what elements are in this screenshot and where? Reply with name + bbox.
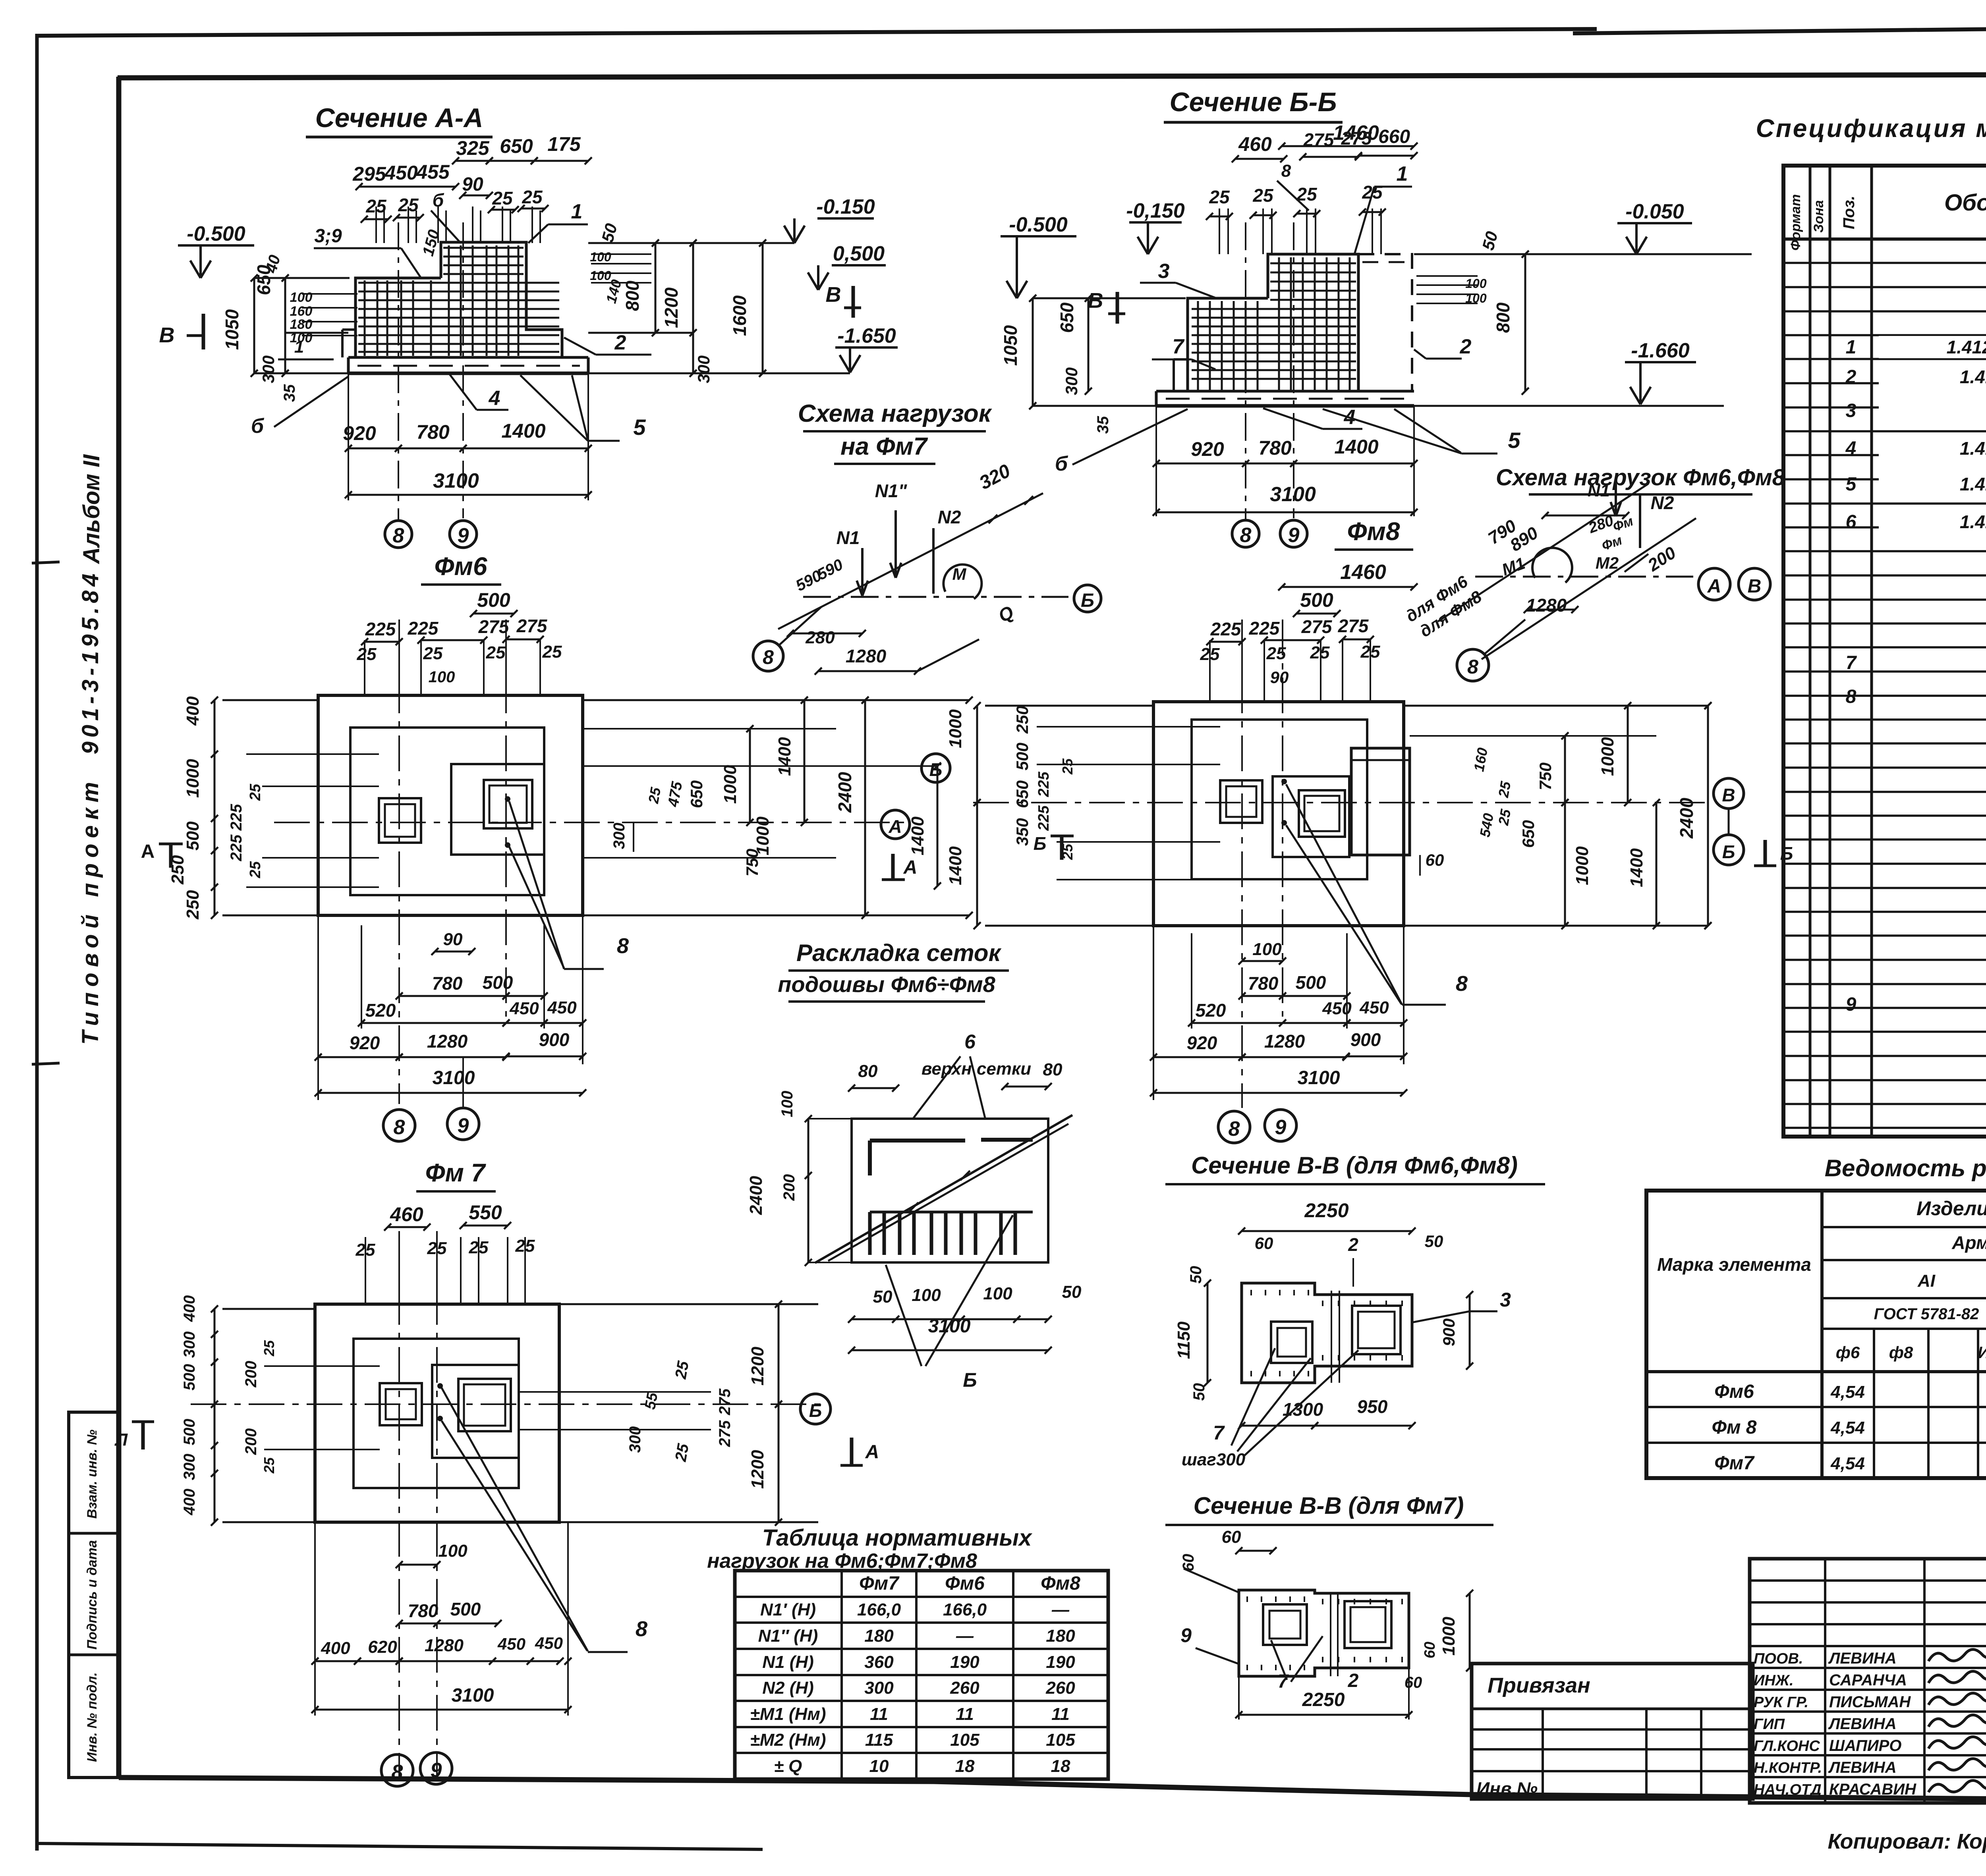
svg-text:250: 250 <box>183 890 203 920</box>
svg-text:60: 60 <box>1255 1234 1273 1253</box>
svg-text:25: 25 <box>261 1457 277 1474</box>
svg-text:Спецификация монолитных фунд: Спецификация монолитных фундаментов Фм6÷… <box>1756 114 1986 143</box>
svg-text:60: 60 <box>1222 1527 1241 1547</box>
svg-text:6: 6 <box>964 1031 976 1053</box>
svg-text:500: 500 <box>1013 743 1032 770</box>
svg-text:Итого: Итого <box>1978 1343 1986 1362</box>
svg-text:10: 10 <box>869 1756 889 1776</box>
svg-text:350: 350 <box>1013 818 1032 846</box>
svg-text:11: 11 <box>1051 1704 1070 1724</box>
svg-text:А: А <box>888 816 902 837</box>
svg-text:ГОСТ 5781-82: ГОСТ 5781-82 <box>1874 1305 1979 1323</box>
section Б-Б top dims <box>1282 145 1414 147</box>
svg-text:1280: 1280 <box>427 1031 468 1052</box>
svg-text:±М2 (Нм): ±М2 (Нм) <box>750 1730 826 1750</box>
svg-text:N2 (Н): N2 (Н) <box>762 1678 814 1698</box>
svg-text:Взам. инв. №: Взам. инв. № <box>85 1430 100 1519</box>
svg-text:300: 300 <box>181 1454 198 1480</box>
section A-A bottom dims <box>348 448 588 450</box>
svg-text:9: 9 <box>1275 1116 1287 1139</box>
svg-text:180: 180 <box>1046 1626 1075 1646</box>
svg-text:25: 25 <box>672 1359 692 1380</box>
svg-text:275: 275 <box>716 1420 734 1447</box>
section V-V Fm6 Fm8 body <box>1242 1283 1412 1383</box>
svg-text:Альбом II: Альбом II <box>79 454 104 565</box>
svg-text:18: 18 <box>1051 1756 1070 1776</box>
svg-text:1000: 1000 <box>1598 737 1617 776</box>
svg-text:650: 650 <box>500 135 533 157</box>
svg-text:190: 190 <box>950 1652 979 1672</box>
svg-text:Фм8: Фм8 <box>1347 517 1400 546</box>
svg-text:-0.500: -0.500 <box>187 222 245 245</box>
svg-text:100: 100 <box>1465 276 1487 291</box>
svg-text:25: 25 <box>261 1340 277 1357</box>
svg-text:60: 60 <box>1426 851 1444 869</box>
svg-text:2: 2 <box>614 331 626 354</box>
svg-text:N1′ (Н): N1′ (Н) <box>760 1600 816 1619</box>
svg-text:50: 50 <box>1190 1383 1208 1401</box>
svg-text:225: 225 <box>228 834 245 861</box>
svg-text:Б: Б <box>963 1369 977 1391</box>
svg-text:400: 400 <box>181 1295 198 1322</box>
svg-text:275: 275 <box>1301 616 1333 637</box>
section mark А (plan Fm7) <box>850 1438 854 1465</box>
svg-text:100: 100 <box>590 250 611 264</box>
svg-text:225: 225 <box>408 618 439 639</box>
svg-text:В: В <box>1748 576 1762 597</box>
svg-text:225: 225 <box>1249 618 1280 639</box>
svg-text:60: 60 <box>1404 1674 1422 1691</box>
svg-text:620: 620 <box>368 1637 397 1657</box>
svg-text:950: 950 <box>1357 1396 1388 1417</box>
svg-text:N1 (Н): N1 (Н) <box>762 1652 814 1672</box>
svg-text:± Q: ± Q <box>774 1756 802 1776</box>
svg-text:450: 450 <box>509 999 539 1018</box>
svg-text:360: 360 <box>864 1652 894 1672</box>
svg-text:9: 9 <box>1288 524 1300 547</box>
svg-text:166,0: 166,0 <box>943 1600 987 1619</box>
svg-text:650: 650 <box>1519 820 1538 848</box>
svg-text:1000: 1000 <box>946 709 965 748</box>
svg-text:3;9: 3;9 <box>314 226 342 247</box>
svg-text:275: 275 <box>516 616 548 636</box>
svg-text:35: 35 <box>1094 416 1112 434</box>
svg-text:2400: 2400 <box>746 1176 766 1215</box>
svg-text:1400: 1400 <box>1627 848 1646 887</box>
svg-text:КРАСАВИН: КРАСАВИН <box>1829 1781 1916 1798</box>
svg-text:450: 450 <box>547 998 577 1017</box>
svg-text:25: 25 <box>247 861 264 878</box>
svg-text:90: 90 <box>443 930 463 949</box>
svg-text:ф6: ф6 <box>1836 1343 1860 1362</box>
svg-text:166,0: 166,0 <box>857 1600 901 1619</box>
svg-text:260: 260 <box>950 1678 979 1698</box>
svg-text:225: 225 <box>1036 805 1052 831</box>
svg-text:Сечение В-В (для Фм7): Сечение В-В (для Фм7) <box>1194 1492 1464 1519</box>
svg-text:115: 115 <box>865 1730 893 1750</box>
svg-text:11: 11 <box>956 1704 974 1724</box>
svg-text:2250: 2250 <box>1302 1689 1345 1710</box>
svg-text:90: 90 <box>1270 668 1289 687</box>
svg-text:шаг300: шаг300 <box>1182 1450 1246 1469</box>
svg-text:на Фм7: на Фм7 <box>840 433 928 460</box>
axis circle 8 leader (Fm6Fm8 scheme) <box>1457 649 1489 681</box>
svg-text:200: 200 <box>780 1174 798 1201</box>
svg-text:25: 25 <box>1495 780 1514 799</box>
svg-text:Изделия арматурные: Изделия арматурные <box>1916 1197 1986 1220</box>
svg-text:0,500: 0,500 <box>833 242 885 265</box>
svg-text:780: 780 <box>408 1600 439 1621</box>
svg-text:500: 500 <box>1296 972 1326 993</box>
specification table <box>1783 166 1986 1137</box>
svg-text:400: 400 <box>181 1489 198 1516</box>
svg-text:Н.КОНТР.: Н.КОНТР. <box>1754 1760 1822 1776</box>
svg-text:7: 7 <box>1278 1671 1289 1692</box>
svg-text:подошвы Фм6÷Фм8: подошвы Фм6÷Фм8 <box>778 972 995 997</box>
svg-text:7: 7 <box>1213 1422 1225 1444</box>
svg-text:460: 460 <box>1238 133 1272 155</box>
svg-text:1.410-2 вып.1: 1.410-2 вып.1 <box>1960 367 1986 387</box>
svg-text:ф8: ф8 <box>1889 1343 1913 1362</box>
svg-text:8: 8 <box>394 1116 405 1139</box>
svg-text:1.410-2 вып.1: 1.410-2 вып.1 <box>1960 511 1986 532</box>
plan Fm8 left dims <box>976 706 978 926</box>
svg-text:1200: 1200 <box>748 1347 767 1386</box>
svg-text:Фм8: Фм8 <box>1041 1573 1080 1594</box>
svg-text:400: 400 <box>321 1639 350 1658</box>
svg-text:ЛЕВИНА: ЛЕВИНА <box>1828 1650 1897 1667</box>
plan Fm7 right dims <box>559 1303 818 1305</box>
svg-text:1050: 1050 <box>1000 325 1021 366</box>
steel consumption table <box>1646 1191 1986 1478</box>
svg-text:18: 18 <box>955 1756 975 1776</box>
svg-text:Поз.: Поз. <box>1840 196 1858 230</box>
svg-text:901-3-195.84: 901-3-195.84 <box>77 569 103 754</box>
svg-text:900: 900 <box>1350 1029 1381 1050</box>
svg-text:180: 180 <box>290 317 313 332</box>
svg-text:8: 8 <box>617 934 629 958</box>
svg-text:9: 9 <box>1180 1624 1192 1646</box>
svg-text:3: 3 <box>1846 400 1857 421</box>
svg-text:1.410-2 вып.1: 1.410-2 вып.1 <box>1960 474 1986 494</box>
svg-text:Арматура класса: Арматура класса <box>1951 1232 1986 1253</box>
svg-text:520: 520 <box>1196 1000 1226 1021</box>
svg-text:50: 50 <box>1187 1266 1205 1284</box>
svg-text:25: 25 <box>672 1442 692 1463</box>
svg-text:1200: 1200 <box>748 1450 767 1489</box>
section mark A left (plan Fm6) <box>169 844 173 868</box>
svg-text:450: 450 <box>497 1635 525 1653</box>
svg-text:500: 500 <box>181 1364 198 1391</box>
svg-text:б: б <box>251 415 265 438</box>
svg-text:А: А <box>1707 576 1721 597</box>
svg-text:900: 900 <box>539 1029 570 1050</box>
svg-text:25: 25 <box>1209 187 1230 207</box>
svg-text:4,54: 4,54 <box>1830 1418 1865 1438</box>
svg-text:1: 1 <box>1397 162 1408 185</box>
svg-text:55: 55 <box>642 1391 661 1411</box>
svg-text:А: А <box>865 1442 879 1463</box>
svg-text:7: 7 <box>1846 652 1857 674</box>
svg-text:1000: 1000 <box>721 765 740 804</box>
svg-text:4,54: 4,54 <box>1830 1382 1865 1402</box>
svg-text:Б: Б <box>1081 590 1094 611</box>
svg-text:1400: 1400 <box>946 846 965 885</box>
svg-text:200: 200 <box>242 1428 260 1455</box>
svg-text:Инв. № подл.: Инв. № подл. <box>85 1672 100 1762</box>
svg-text:8: 8 <box>763 646 774 668</box>
svg-text:ЛЕВИНА: ЛЕВИНА <box>1828 1759 1897 1776</box>
svg-text:25: 25 <box>542 642 562 662</box>
svg-text:-0,150: -0,150 <box>1126 199 1185 222</box>
svg-text:920: 920 <box>350 1033 380 1053</box>
svg-text:3100: 3100 <box>433 1067 475 1089</box>
plan Fm6 body <box>318 695 583 915</box>
svg-text:100: 100 <box>983 1284 1012 1303</box>
plan Fm6 top dims <box>473 613 514 615</box>
svg-text:Марка элемента: Марка элемента <box>1657 1254 1811 1275</box>
plan Fm7 top dims <box>388 1226 427 1228</box>
svg-text:300: 300 <box>259 355 278 383</box>
svg-text:Таблица нормативных: Таблица нормативных <box>762 1525 1033 1551</box>
svg-text:800: 800 <box>1493 302 1513 333</box>
section mark Б right (plan Fm8) <box>1764 840 1767 866</box>
svg-text:НАЧ.ОТД: НАЧ.ОТД <box>1754 1781 1822 1798</box>
svg-text:Ведомость расхода стали на эле: Ведомость расхода стали на элемент, кг <box>1825 1155 1986 1181</box>
axis circles 8 and 9 (Б-Б) <box>1232 520 1259 547</box>
svg-text:900: 900 <box>1439 1318 1458 1346</box>
svg-text:N2: N2 <box>938 507 961 527</box>
axis circles 8 and 9 (plan Fm6) <box>383 1110 415 1141</box>
title block signature grid <box>1750 1559 1986 1803</box>
svg-text:100: 100 <box>429 668 455 686</box>
svg-text:35: 35 <box>281 384 298 402</box>
svg-text:25: 25 <box>492 188 513 208</box>
svg-text:920: 920 <box>1191 438 1224 460</box>
load scheme Fm7 diagram <box>803 596 1068 598</box>
svg-text:ГЛ.КОНС: ГЛ.КОНС <box>1754 1738 1820 1754</box>
section A-A upper dimension cluster <box>456 160 489 162</box>
svg-text:Инв.№: Инв.№ <box>1476 1778 1538 1799</box>
svg-text:520: 520 <box>365 1000 396 1021</box>
svg-text:25: 25 <box>1059 758 1076 775</box>
svg-text:1460: 1460 <box>1340 561 1386 584</box>
svg-text:В: В <box>1722 785 1735 805</box>
svg-text:6: 6 <box>1846 511 1857 533</box>
svg-text:Б: Б <box>1722 841 1735 862</box>
svg-text:100: 100 <box>912 1285 941 1305</box>
section Б-Б bottom dims <box>1156 463 1414 465</box>
svg-text:60: 60 <box>1422 1642 1438 1658</box>
plan Fm8 top dims <box>1282 586 1414 588</box>
svg-text:280: 280 <box>805 628 835 647</box>
svg-text:80: 80 <box>858 1062 878 1081</box>
svg-text:1000: 1000 <box>1573 846 1592 885</box>
svg-text:1600: 1600 <box>729 295 750 336</box>
svg-text:275: 275 <box>1341 128 1372 149</box>
inner drawing frame <box>116 77 122 1778</box>
svg-text:В: В <box>826 283 841 307</box>
axis circles 8 and 9 (plan Fm7) <box>381 1754 413 1786</box>
svg-text:1.410-2 вып.1: 1.410-2 вып.1 <box>1960 438 1986 459</box>
svg-text:11: 11 <box>870 1704 888 1724</box>
svg-text:2: 2 <box>1845 367 1857 388</box>
normative loads table <box>735 1571 1108 1779</box>
axis circles 8 and 9 (plan Fm8) <box>1218 1111 1250 1143</box>
svg-text:260: 260 <box>1045 1678 1075 1698</box>
svg-text:2250: 2250 <box>1304 1199 1348 1222</box>
svg-text:8: 8 <box>1281 161 1291 181</box>
svg-text:Сечение Б-Б: Сечение Б-Б <box>1170 87 1337 117</box>
svg-text:ГИП: ГИП <box>1754 1716 1785 1733</box>
svg-text:300: 300 <box>864 1678 894 1698</box>
svg-text:105: 105 <box>1046 1730 1075 1750</box>
svg-text:ШАПИРО: ШАПИРО <box>1829 1737 1901 1754</box>
svg-text:25: 25 <box>645 786 664 805</box>
svg-text:180: 180 <box>864 1626 894 1646</box>
svg-text:Копировал: Корецкая: Копировал: Корецкая <box>1828 1830 1986 1853</box>
svg-text:650: 650 <box>687 780 706 808</box>
svg-text:300: 300 <box>181 1332 198 1358</box>
svg-text:300: 300 <box>1062 367 1081 395</box>
svg-text:ИНЖ.: ИНЖ. <box>1754 1672 1794 1689</box>
section Б-Б body <box>1156 390 1414 393</box>
svg-text:—: — <box>1051 1600 1070 1619</box>
plan Fm7 body <box>315 1304 559 1522</box>
svg-text:25: 25 <box>357 645 377 664</box>
svg-text:Б: Б <box>1034 833 1047 854</box>
svg-text:3100: 3100 <box>1298 1067 1340 1089</box>
svg-text:450: 450 <box>384 162 418 184</box>
svg-text:5: 5 <box>1846 474 1857 495</box>
svg-text:3100: 3100 <box>433 469 479 492</box>
svg-text:б: б <box>1055 452 1068 475</box>
svg-text:275: 275 <box>716 1388 734 1415</box>
svg-text:2: 2 <box>1348 1234 1358 1255</box>
plan Fm8 right dims <box>1404 705 1708 707</box>
svg-text:275: 275 <box>1303 129 1335 150</box>
svg-text:100: 100 <box>1465 291 1487 305</box>
svg-text:Б: Б <box>809 1400 822 1421</box>
svg-text:325: 325 <box>456 137 490 159</box>
svg-text:100: 100 <box>779 1091 796 1117</box>
svg-text:M: M <box>952 565 967 583</box>
svg-text:Фм7: Фм7 <box>859 1573 900 1594</box>
svg-text:200: 200 <box>242 1361 260 1388</box>
svg-text:5: 5 <box>633 415 646 440</box>
svg-text:Привязан: Привязан <box>1488 1673 1590 1697</box>
svg-text:Сечение А-А: Сечение А-А <box>315 103 483 133</box>
svg-text:500: 500 <box>450 1599 481 1619</box>
svg-text:500: 500 <box>477 589 510 611</box>
svg-text:225: 225 <box>1210 619 1242 639</box>
load scheme Fm6 Fm8 diagram <box>1475 576 1693 578</box>
svg-text:25: 25 <box>486 643 506 662</box>
svg-text:175: 175 <box>547 133 581 155</box>
svg-text:275: 275 <box>478 616 510 637</box>
svg-text:455: 455 <box>416 161 450 183</box>
svg-text:-0.050: -0.050 <box>1625 200 1684 223</box>
svg-text:8: 8 <box>1456 972 1468 996</box>
svg-text:8: 8 <box>1467 656 1478 678</box>
svg-text:Л: Л <box>114 1430 128 1449</box>
svg-text:800: 800 <box>622 280 643 311</box>
axis circle 8 leader (Fm7 scheme) <box>753 641 783 671</box>
svg-text:250: 250 <box>1013 706 1032 734</box>
svg-text:Зона: Зона <box>1811 200 1826 233</box>
svg-text:1400: 1400 <box>501 420 545 442</box>
svg-text:А: А <box>141 841 155 862</box>
svg-text:300: 300 <box>610 823 628 849</box>
svg-text:Фм6: Фм6 <box>945 1573 985 1594</box>
svg-text:1000: 1000 <box>183 759 203 798</box>
svg-text:-1.650: -1.650 <box>837 324 896 347</box>
svg-text:660: 660 <box>1378 126 1410 147</box>
svg-text:1.412- ¹/77 вып.3: 1.412- ¹/77 вып.3 <box>1947 337 1986 357</box>
svg-text:М2: М2 <box>1596 554 1619 572</box>
svg-text:В: В <box>159 323 175 347</box>
svg-text:Фм6: Фм6 <box>1714 1381 1754 1402</box>
svg-text:Подпись и дата: Подпись и дата <box>85 1540 100 1650</box>
svg-text:225: 225 <box>365 619 396 639</box>
svg-text:1280: 1280 <box>846 646 887 666</box>
svg-text:N1″ (Н): N1″ (Н) <box>758 1626 818 1646</box>
grid circle Б and А (plan Fm6) <box>922 754 950 782</box>
svg-text:650: 650 <box>1057 302 1077 333</box>
svg-text:780: 780 <box>1258 437 1292 459</box>
svg-text:400: 400 <box>183 696 203 726</box>
svg-text:50: 50 <box>873 1287 893 1307</box>
svg-text:Формат: Формат <box>1788 194 1803 251</box>
svg-text:780: 780 <box>1248 973 1279 994</box>
svg-text:1280: 1280 <box>1526 595 1567 616</box>
section A-A body <box>348 356 588 359</box>
svg-text:ПООВ.: ПООВ. <box>1754 1650 1803 1667</box>
svg-text:7: 7 <box>1173 335 1185 358</box>
section V-V Fm7 body <box>1239 1590 1409 1676</box>
svg-text:9: 9 <box>458 1114 469 1137</box>
svg-text:780: 780 <box>432 973 463 994</box>
svg-text:3100: 3100 <box>452 1685 494 1706</box>
grid circle Б (plan Fm7) <box>800 1394 831 1424</box>
svg-text:РУК ГР.: РУК ГР. <box>1754 1694 1808 1711</box>
svg-text:1280: 1280 <box>1264 1031 1305 1052</box>
svg-text:Схема нагрузок: Схема нагрузок <box>798 400 992 427</box>
svg-text:190: 190 <box>1046 1652 1075 1672</box>
svg-text:8: 8 <box>393 524 404 547</box>
svg-text:8: 8 <box>1240 524 1252 547</box>
svg-text:650: 650 <box>1013 780 1032 808</box>
svg-text:500: 500 <box>183 821 203 851</box>
svg-text:N2: N2 <box>1651 492 1674 513</box>
svg-text:80: 80 <box>1043 1060 1063 1079</box>
svg-text:9: 9 <box>458 524 469 547</box>
svg-text:100: 100 <box>1252 940 1282 959</box>
svg-text:50: 50 <box>1062 1282 1082 1302</box>
svg-text:±М1 (Нм): ±М1 (Нм) <box>750 1704 826 1724</box>
svg-text:750: 750 <box>743 849 761 876</box>
svg-text:225: 225 <box>228 804 245 831</box>
svg-text:В: В <box>1088 289 1103 313</box>
revision block (Привязан) <box>1472 1664 1753 1799</box>
svg-text:60: 60 <box>1180 1554 1197 1572</box>
svg-text:-0.150: -0.150 <box>816 195 875 218</box>
svg-text:25: 25 <box>1310 643 1330 662</box>
svg-text:1: 1 <box>571 200 583 223</box>
svg-text:3: 3 <box>1500 1289 1511 1311</box>
svg-text:N1: N1 <box>837 527 860 548</box>
svg-text:3100: 3100 <box>1270 483 1316 506</box>
